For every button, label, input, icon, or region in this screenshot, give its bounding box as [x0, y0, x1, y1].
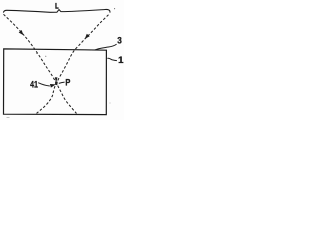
leader line to 3 [95, 44, 117, 50]
svg-text:1: 1 [118, 55, 124, 66]
svg-text:41: 41 [30, 79, 38, 89]
arrowhead on right ray [85, 34, 90, 39]
brace L (dimension line across top) [3, 9, 110, 12]
junction blob at P [55, 82, 58, 86]
speck top right [114, 8, 115, 9]
converging arrowheads just above P (merged dark dart) [55, 77, 58, 83]
stray ink dots near left ray [36, 53, 37, 54]
svg-text:P: P [65, 78, 70, 88]
box 1 (substrate rectangle) [4, 49, 107, 115]
arrowhead of 41 leader [50, 84, 56, 88]
leader line from 41 [38, 83, 50, 86]
speck right of box [109, 102, 112, 105]
arrowhead on left ray [19, 30, 24, 35]
ray (dashed) from left brace end through P to bottom [4, 14, 77, 113]
ray (dashed) from right brace end through P to bottom [37, 15, 109, 114]
leader line to 1 [107, 58, 117, 60]
dash to P [59, 82, 65, 83]
speck below bottom left [7, 116, 10, 119]
svg-text:3: 3 [117, 35, 122, 45]
label L [55, 3, 58, 9]
